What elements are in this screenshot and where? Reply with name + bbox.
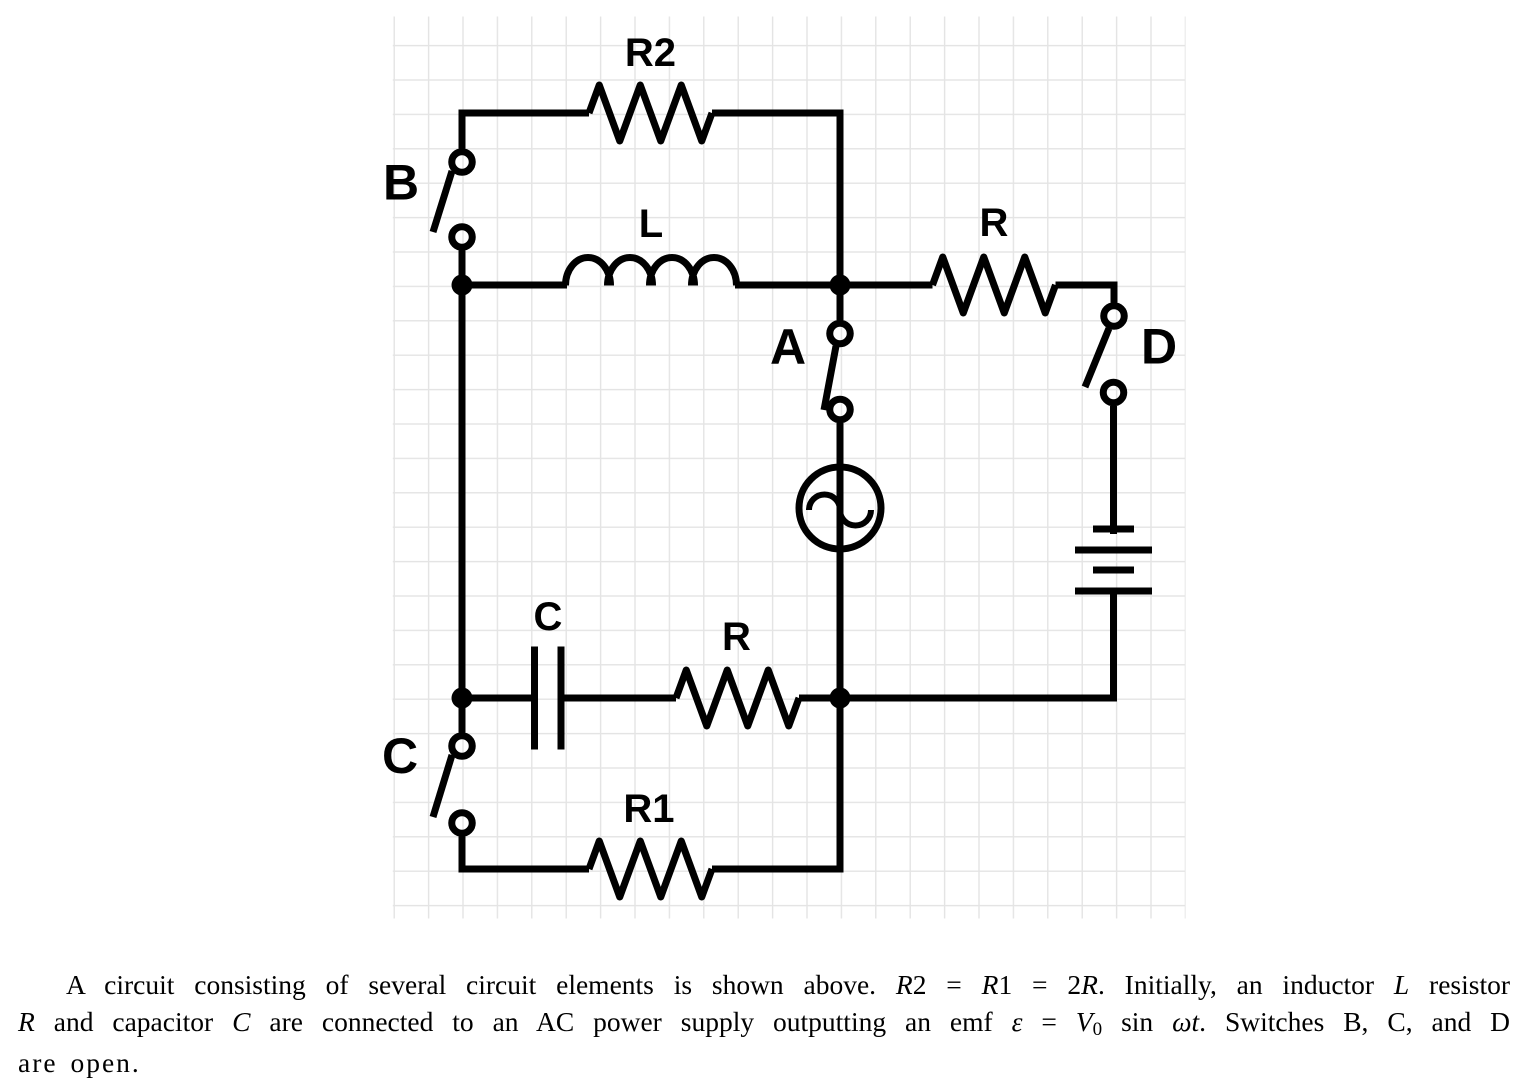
wire switch A through AC source to bottom node <box>837 423 844 698</box>
node/junction dot right C-row <box>830 688 851 709</box>
resistor R2 <box>589 85 712 141</box>
node/junction dot right L-row <box>830 275 851 296</box>
wire node down to switch C <box>459 698 466 733</box>
svg-text:R2: R2 <box>625 31 676 75</box>
wire battery to bottom-right corner to node <box>840 591 1114 698</box>
svg-text:C: C <box>382 728 418 784</box>
resistor R1 <box>589 841 712 897</box>
capacitor C right plate <box>558 647 565 750</box>
wire R1 to bottom-right corner up to node <box>712 698 840 869</box>
svg-text:R: R <box>722 615 751 659</box>
switch D bottom terminal <box>1103 382 1124 403</box>
switch B top terminal <box>452 152 473 173</box>
svg-text:L: L <box>639 202 663 246</box>
wire R2 to corner and down to switch A <box>712 113 840 320</box>
AC source circle <box>799 467 881 549</box>
AC source sine wave <box>809 495 871 526</box>
svg-text:D: D <box>1141 319 1177 375</box>
svg-text:R1: R1 <box>623 787 674 831</box>
wire switch B to node row L <box>459 251 466 286</box>
battery plate 4 (long) <box>1075 588 1152 595</box>
svg-text:B: B <box>383 155 419 211</box>
switch C arm <box>433 755 452 817</box>
switch B arm <box>433 171 452 232</box>
switch C top terminal <box>452 736 473 757</box>
svg-text:R: R <box>980 201 1009 245</box>
wire top loop: left riser, top rail with R2, right riser down to switch A <box>462 113 589 149</box>
caption paragraph <box>18 966 1510 1081</box>
wire node to inductor <box>462 282 567 289</box>
wire node to capacitor <box>462 695 531 702</box>
switch A arm <box>824 346 836 410</box>
left vertical wire node-to-node <box>459 285 466 698</box>
svg-text:A: A <box>770 319 806 375</box>
battery plate 3 (short) <box>1093 567 1134 574</box>
wire switch D to battery <box>1110 406 1117 534</box>
switch A: wire stub is part of riser; top terminal <box>830 323 851 344</box>
resistor R (top right) <box>933 257 1056 313</box>
wire capacitor to resistor R <box>565 695 677 702</box>
switch C bottom terminal <box>452 813 473 834</box>
switch B bottom terminal <box>452 227 473 248</box>
grid background <box>393 17 1186 919</box>
inductor L <box>566 258 737 286</box>
resistor R (bottom middle) <box>676 670 799 726</box>
capacitor C left plate <box>531 647 538 750</box>
wire inductor to resistor R <box>735 282 933 289</box>
node/junction dot left L-row <box>452 275 473 296</box>
battery plate 2 (long) <box>1075 547 1152 554</box>
switch D top terminal <box>1104 306 1125 327</box>
battery plate 1 (short) <box>1093 526 1134 533</box>
wire resistor to node <box>799 695 840 702</box>
wire switch C to bottom rail with R1 <box>462 837 589 870</box>
switch D arm <box>1085 329 1109 388</box>
svg-text:C: C <box>534 595 563 639</box>
wire R to corner down to switch D <box>1056 285 1115 303</box>
node/junction dot left C-row <box>452 688 473 709</box>
switch A bottom terminal <box>830 399 851 420</box>
